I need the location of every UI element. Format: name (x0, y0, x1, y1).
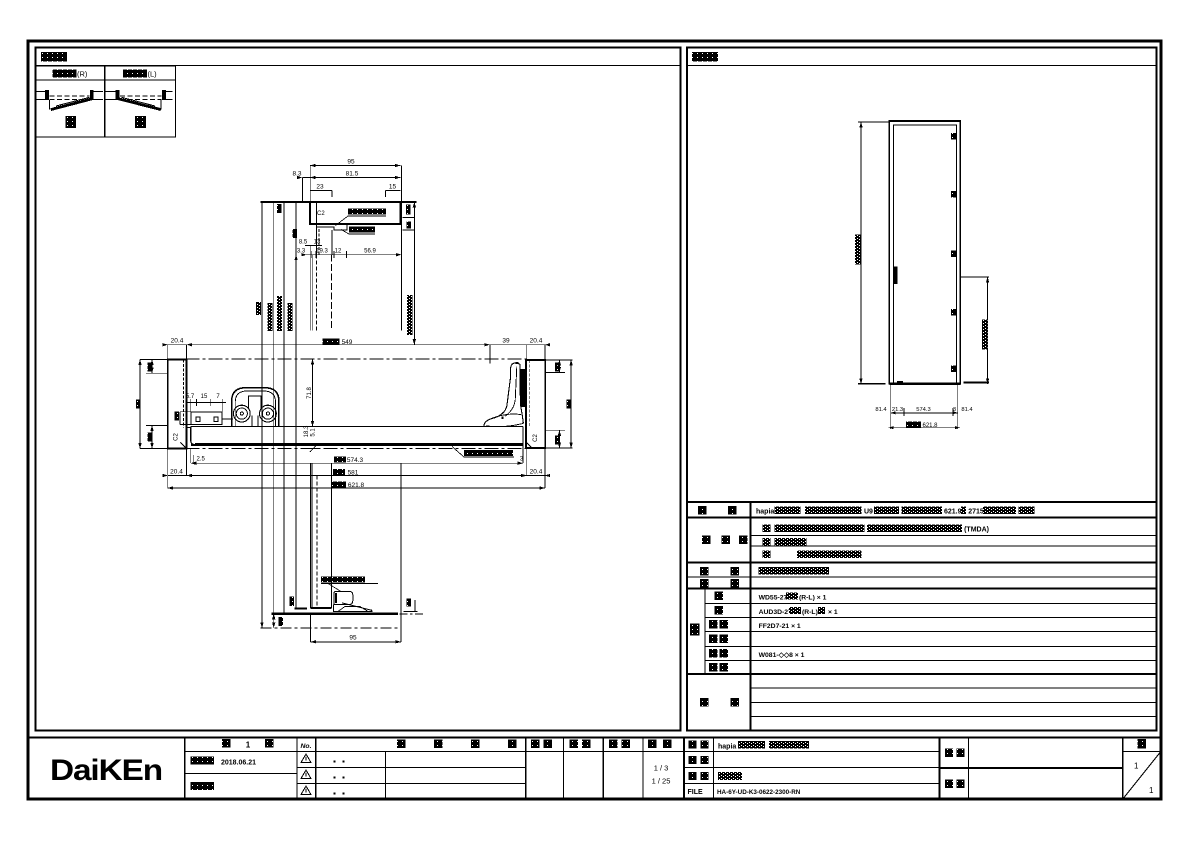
bottom stopper body (334, 591, 373, 611)
svg-text:hapia: hapia (756, 509, 774, 516)
frame right edge long line (400, 166, 402, 331)
bottom dim extension lines (889, 384, 960, 429)
縮尺 header (648, 740, 657, 749)
rotated label 開口=2597.6 (277, 296, 282, 331)
rotated dim 30.4 (277, 204, 282, 213)
hinge mounting strip on frame (521, 369, 526, 407)
row lines (185, 751, 940, 753)
floor line FL (271, 613, 398, 615)
svg-text:20.4: 20.4 (530, 468, 543, 475)
dim 71.8 vertical (312, 359, 314, 427)
door leaf lines below section (double solid + dashed) (311, 166, 402, 331)
hinge mounting plate (191, 412, 233, 425)
door leaf (plan) top face (191, 427, 523, 445)
door width dim line 574.3 (191, 445, 527, 476)
svg-text:WD55-27: WD55-27 (759, 595, 788, 602)
leader 面材化粧面指定 (464, 450, 513, 456)
hinge cup center notch (249, 396, 262, 409)
mini section diagram left-hinged (106, 90, 173, 110)
label FZストッパー (321, 577, 365, 583)
svg-text:1 / 25: 1 / 25 (652, 777, 671, 786)
改訂日 row (191, 782, 215, 790)
承認 header (531, 740, 540, 749)
top frame box (310, 202, 400, 224)
rotated label 枠外H=2715 (855, 235, 861, 265)
作成 header (609, 740, 618, 749)
改訂履歴 header (397, 740, 406, 749)
label C2 rotated (left frame) (174, 433, 180, 441)
名称 label (689, 741, 697, 749)
svg-text:FILE: FILE (688, 789, 703, 796)
svg-text:C2: C2 (533, 434, 539, 442)
dimension arrowheads (138, 122, 989, 644)
dim 23 line (310, 190, 332, 192)
hinge arm square mark (501, 417, 503, 419)
svg-text:621.8: 621.8 (348, 482, 365, 489)
stopper base (334, 603, 373, 612)
svg-text:(L): (L) (148, 70, 158, 79)
right side dims of plan (545, 360, 572, 448)
top dim line of plan (168, 345, 545, 364)
svg-text:(R-L) × 1: (R-L) × 1 (799, 595, 827, 602)
rotated dim 15 (bottom) (278, 617, 283, 626)
svg-text:U9: U9 (864, 509, 873, 516)
wall center dash-dot line bottom (186, 447, 527, 449)
dim 35 bottom (311, 614, 401, 642)
rotated dim 15 (left) (148, 363, 153, 372)
left height dim line (858, 122, 890, 384)
svg-text:20.4: 20.4 (170, 468, 183, 475)
label 把手 (700, 567, 709, 576)
sub label 見切 (709, 663, 718, 672)
left panel frame (36, 48, 681, 731)
hinge cup circles (233, 405, 250, 422)
rotated dim 4.1 (293, 229, 298, 238)
revision dots rows (334, 761, 345, 795)
left side dims of plan (140, 359, 168, 448)
svg-text:1: 1 (246, 741, 251, 750)
sub label 枠 (714, 592, 723, 601)
svg-text:39: 39 (502, 338, 510, 345)
svg-text:HA-6Y-UD-K3-0622-2300-RN: HA-6Y-UD-K3-0622-2300-RN (717, 789, 801, 796)
dims row 3.3 19.3 12 56.9 (297, 249, 377, 255)
svg-text:× 1: × 1 (828, 609, 838, 616)
right panel frame (687, 48, 1157, 731)
dim 95 line (310, 165, 400, 167)
rotated dim 50 (right) (567, 400, 572, 409)
svg-text:1: 1 (1134, 762, 1139, 771)
svg-text:574.3: 574.3 (347, 457, 364, 464)
right frame jamb (526, 360, 545, 448)
rotated label 枠内=2711 (267, 303, 272, 331)
svg-text:C2: C2 (174, 433, 180, 441)
頁 header (1138, 739, 1147, 749)
図名 label (689, 772, 697, 780)
mini section diagram right-hinged (36, 90, 103, 110)
warning triangle 1 (301, 754, 311, 795)
rotated label 扉高=2295 (288, 303, 293, 331)
svg-text:20.4: 20.4 (171, 338, 184, 345)
svg-text:581: 581 (348, 470, 359, 477)
svg-text:95: 95 (347, 159, 355, 166)
right side small dims 81.4 / 10 (406, 205, 411, 215)
rotated dim 3.5 (bottom right) (406, 599, 411, 607)
制定日 row (191, 757, 215, 765)
handle bar (894, 266, 898, 284)
cell header 右吊元(R) (53, 70, 77, 78)
仕上げ row3 value (763, 550, 771, 558)
left frame jamb (168, 359, 191, 448)
frame width dim line (168, 448, 545, 488)
rotated dim 30 (right) (555, 436, 560, 445)
rotated label 把手高=950 (982, 319, 988, 349)
svg-text:71.8: 71.8 (307, 387, 313, 399)
bottom dim texts (875, 407, 973, 413)
svg-text:23: 23 (316, 184, 324, 191)
svg-text:DaiKEn: DaiKEn (50, 754, 162, 787)
svg-text:hapia: hapia (718, 744, 736, 751)
row 様式 label (698, 506, 707, 515)
svg-text:5.1: 5.1 (310, 428, 316, 437)
svg-text:1: 1 (1149, 786, 1154, 795)
見本 label (689, 756, 697, 764)
hinge cup outer (232, 388, 279, 427)
svg-text:621.8: 621.8 (922, 423, 938, 429)
door bottom thick edge (889, 383, 960, 385)
svg-text:15: 15 (389, 184, 397, 191)
rotated dim 25 (left) (148, 433, 153, 442)
svg-text:13: 13 (314, 240, 321, 246)
door front inner rect (893, 125, 956, 384)
rotated label 全高(h)=2294.1 (407, 295, 413, 335)
door stop step (316, 224, 347, 230)
rotated dim 15 (right) (555, 363, 560, 372)
svg-text:15: 15 (201, 394, 208, 400)
sub label 金具 (709, 649, 718, 658)
label 備考 (700, 698, 709, 707)
total width label 枠外W=621.8 (906, 421, 921, 427)
svg-text:3.3: 3.3 (297, 249, 306, 255)
仕上げ row1 value (763, 524, 771, 532)
svg-text:549: 549 (342, 339, 353, 346)
door bottom edge (311, 607, 332, 609)
left panel label line (36, 65, 681, 67)
図名 value 三面図 (718, 772, 742, 780)
dim 15 line (385, 190, 400, 192)
rotated dims 18.3 / 5.1 (304, 425, 310, 437)
svg-text:2.5: 2.5 (197, 457, 206, 463)
svg-text:(TMDA): (TMDA) (964, 527, 989, 534)
rotated dim 3.3 (bottom) (290, 597, 295, 607)
svg-text:2018.06.21: 2018.06.21 (221, 760, 256, 767)
svg-text:81.4: 81.4 (875, 407, 887, 413)
hidden line below floor (260, 627, 401, 629)
total width dim line 621.8 (168, 487, 545, 489)
svg-text:56.9: 56.9 (364, 249, 376, 255)
svg-text:C2: C2 (317, 211, 325, 217)
door front outer rect (889, 121, 960, 384)
label C2 rotated (right frame) (533, 434, 539, 442)
svg-text:574.3: 574.3 (916, 407, 931, 413)
hinge arm at right jamb (484, 363, 524, 427)
svg-text:(R-L): (R-L) (802, 609, 818, 616)
label 品番 (stacked) (690, 624, 699, 636)
door top edges (315, 227, 317, 255)
svg-text:19.3: 19.3 (316, 249, 328, 255)
svg-text:5.7: 5.7 (186, 394, 195, 400)
svg-text:No.: No. (301, 743, 312, 750)
svg-text:8.5: 8.5 (299, 240, 308, 246)
rotated label 総高=2715 (256, 302, 261, 315)
rotated dim 13 (plate) (175, 412, 180, 421)
sub label 下枠 (709, 634, 718, 643)
wall center dash-dot line top (186, 358, 527, 360)
仕上げ row2 value (763, 538, 771, 546)
right partial height dim (960, 277, 989, 384)
確認 header (570, 740, 579, 749)
label 重量 (700, 579, 709, 588)
svg-text:95: 95 (349, 635, 357, 642)
label 枠開口=549 (323, 339, 340, 345)
sub label 把手 (709, 620, 718, 629)
svg-text:2715: 2715 (968, 509, 984, 516)
把手 value ラウンド型(Tシルバー) (759, 567, 830, 575)
label 戸当りゴム (349, 227, 375, 233)
hinge marks (5) (951, 133, 957, 372)
dim 81.5 line (303, 177, 401, 179)
hinge-direction mini table (36, 66, 176, 137)
svg-text:81.5: 81.5 (346, 171, 359, 178)
warning triangle 2 (301, 770, 311, 779)
bottom left black mark (897, 381, 903, 384)
svg-text:12: 12 (335, 249, 342, 255)
warning triangle 3 (301, 786, 311, 795)
svg-text:FF2D7-21 × 1: FF2D7-21 × 1 (759, 623, 801, 630)
plate dim line 5.7 15 7 (187, 399, 226, 412)
svg-text:1 / 3: 1 / 3 (654, 764, 669, 773)
page diagonal (1124, 753, 1160, 798)
label 仕上げ (702, 535, 711, 544)
sub label 扉 (714, 606, 723, 615)
ceiling line (260, 201, 416, 203)
svg-text:81.4: 81.4 (961, 407, 973, 413)
right panel label line (687, 65, 1157, 67)
svg-text:621.9: 621.9 (944, 509, 962, 516)
部署 label (945, 780, 953, 789)
label 戸当りストッパー (348, 209, 386, 215)
svg-text:(R): (R) (77, 70, 88, 79)
svg-text:20.4: 20.4 (530, 338, 543, 345)
cell header 左吊元(L) (123, 70, 147, 78)
第1版 header (222, 739, 231, 748)
rotated dim 50 (left) (136, 400, 141, 409)
svg-text:AUD3D-27: AUD3D-27 (759, 609, 792, 616)
right panel title 正面図 (692, 52, 718, 62)
door leaf lines (bottom) (310, 463, 312, 608)
svg-text:W081-◇◇8 × 1: W081-◇◇8 × 1 (759, 652, 805, 659)
frame edge line right (bottom) (400, 463, 402, 642)
件名 label (945, 749, 953, 758)
left panel title 断面図 (41, 52, 67, 62)
